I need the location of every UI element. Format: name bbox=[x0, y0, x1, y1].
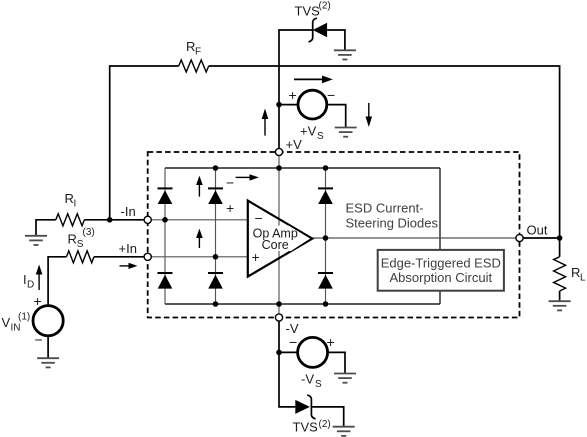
op-amp text background bbox=[254, 226, 310, 252]
svg-text:D: D bbox=[27, 280, 34, 291]
wire RL to ground bbox=[559, 291, 561, 301]
wire RS to +In node bbox=[94, 256, 148, 258]
svg-text:Edge-Triggered ESD: Edge-Triggered ESD bbox=[381, 256, 501, 271]
ground RL bbox=[549, 301, 571, 310]
svg-text:R: R bbox=[68, 232, 77, 247]
node -V (open pin circle) bbox=[275, 314, 282, 321]
ground +VS bbox=[335, 128, 357, 137]
junction dot outcol/bottom rail bbox=[323, 301, 329, 307]
diode D4 col2 bottom bbox=[208, 273, 223, 289]
arrow right above +VS bbox=[294, 78, 323, 80]
arrow right on top rail region bbox=[236, 176, 251, 178]
arrow up left of +VS bbox=[264, 118, 266, 136]
resistor RF bbox=[179, 60, 209, 72]
svg-text:(2): (2) bbox=[319, 1, 331, 12]
wire RI left lead to ground bbox=[36, 220, 56, 236]
TVS top diode symbol bbox=[309, 18, 328, 42]
svg-text:S: S bbox=[315, 379, 322, 390]
source VIN bbox=[33, 306, 63, 336]
wire -V down to TVS bottom bbox=[279, 321, 295, 407]
svg-text:-In: -In bbox=[121, 204, 136, 219]
svg-text:−: − bbox=[327, 87, 335, 103]
junction dot col1/-In row bbox=[162, 217, 168, 223]
svg-text:−: − bbox=[35, 332, 43, 348]
wire +VS right lead to ground bbox=[327, 105, 346, 127]
ground below RI bbox=[25, 236, 47, 245]
svg-text:+V: +V bbox=[286, 137, 303, 152]
node +In (open pin circle) bbox=[144, 253, 151, 260]
wire center supply column bbox=[278, 152, 280, 318]
svg-text:F: F bbox=[195, 47, 201, 58]
svg-text:Core: Core bbox=[262, 238, 289, 252]
node +V (open pin circle) bbox=[275, 148, 282, 155]
svg-text:+: + bbox=[34, 293, 42, 309]
svg-text:S: S bbox=[317, 131, 324, 142]
current arrow ID bbox=[38, 274, 40, 291]
node -In (open pin circle) bbox=[144, 216, 151, 223]
arrow up between diode rows (top) bbox=[198, 184, 200, 197]
wire -VS right lead to ground bbox=[328, 352, 345, 373]
svg-text:Out: Out bbox=[527, 223, 548, 238]
svg-text:(1): (1) bbox=[18, 312, 30, 323]
resistor RI bbox=[56, 214, 85, 226]
node Out (open pin circle) bbox=[516, 234, 523, 241]
wire op-amp output row to Out bbox=[312, 237, 519, 239]
diode D5 output column top bbox=[318, 188, 333, 204]
junction dot col2/+In row bbox=[213, 254, 219, 260]
svg-text:+: + bbox=[327, 334, 335, 350]
svg-text:−: − bbox=[255, 210, 263, 226]
wire bottom rail -V bbox=[165, 303, 440, 305]
source +VS bbox=[298, 90, 327, 119]
wire column 2 (+In diodes) bbox=[215, 168, 217, 304]
svg-text:+In: +In bbox=[119, 241, 137, 256]
svg-text:L: L bbox=[580, 273, 586, 284]
arrow down right of +VS bbox=[368, 103, 370, 118]
svg-text:IN: IN bbox=[11, 323, 21, 334]
diode D6 output column bottom bbox=[318, 273, 333, 289]
junction dot supply column/+VS bbox=[276, 102, 282, 108]
resistor RL bbox=[554, 257, 566, 291]
wire output diode column bbox=[325, 168, 327, 304]
wire RI to -In node bbox=[84, 219, 147, 221]
wire -In row to op-amp bbox=[148, 219, 248, 221]
svg-text:(2): (2) bbox=[319, 419, 331, 430]
wire VIN to ground bbox=[47, 336, 49, 358]
junction dot -V/-VS bbox=[276, 350, 282, 356]
svg-text:+: + bbox=[252, 249, 260, 265]
svg-text:Steering Diodes: Steering Diodes bbox=[346, 216, 439, 231]
junction dot outcol/out row bbox=[323, 235, 329, 241]
svg-text:TVS: TVS bbox=[295, 4, 321, 19]
junction dot col2/bottom rail bbox=[213, 301, 219, 307]
svg-text:+: + bbox=[226, 200, 234, 216]
ground TVS bottom bbox=[333, 427, 355, 436]
svg-text:+: + bbox=[289, 87, 297, 103]
svg-text:ESD Current-: ESD Current- bbox=[346, 201, 424, 216]
ground below VIN bbox=[37, 358, 59, 367]
ground -VS bbox=[334, 374, 356, 383]
diode D3 col1 bottom bbox=[158, 273, 173, 289]
wire feedback left vertical from RF down to -In junction bbox=[110, 66, 179, 220]
diode D2 col2 top bbox=[208, 188, 223, 204]
svg-text:R: R bbox=[571, 265, 580, 280]
junction dot Out/RL bbox=[557, 235, 563, 241]
svg-text:R: R bbox=[65, 191, 74, 206]
wire +In row to op-amp bbox=[148, 256, 248, 258]
wire RF to right edge and down to Out node bbox=[209, 66, 560, 238]
wire +VS left lead bbox=[279, 104, 298, 106]
junction dot center/bottom rail bbox=[276, 301, 282, 307]
wire RS left lead down to VIN bbox=[48, 257, 66, 306]
svg-text:I: I bbox=[74, 199, 77, 210]
wire top rail +V bbox=[165, 167, 440, 169]
wire TVS top right lead to ground bbox=[327, 30, 345, 50]
current arrow into +In bbox=[120, 265, 130, 267]
svg-text:−: − bbox=[289, 334, 297, 350]
box Edge-Triggered ESD Absorption Circuit bbox=[378, 250, 504, 291]
arrow up between input rows bbox=[198, 237, 200, 248]
svg-text:V: V bbox=[2, 315, 11, 330]
junction dot col2/top rail bbox=[213, 165, 219, 171]
svg-text:(3): (3) bbox=[83, 227, 95, 238]
wire Out node to RL bbox=[520, 237, 560, 239]
svg-text:Absorption Circuit: Absorption Circuit bbox=[389, 270, 492, 285]
wire column 1 (-In diodes) bbox=[164, 168, 166, 304]
node junction dot feedback/-In bbox=[107, 217, 113, 223]
wire right inner vertical bbox=[439, 168, 441, 304]
source -VS bbox=[298, 337, 328, 367]
ground TVS top bbox=[334, 50, 356, 59]
junction dot outcol/top rail bbox=[323, 165, 329, 171]
TVS bottom diode symbol bbox=[295, 395, 315, 419]
svg-text:TVS: TVS bbox=[293, 420, 319, 435]
svg-text:S: S bbox=[77, 239, 84, 250]
wire Out dot to RL bbox=[559, 238, 561, 257]
svg-text:-V: -V bbox=[301, 372, 314, 387]
svg-text:−: − bbox=[226, 175, 234, 191]
junction dot center/top rail bbox=[276, 165, 282, 171]
wire -VS left lead bbox=[279, 351, 298, 353]
svg-text:R: R bbox=[186, 39, 195, 54]
dashed ESD boundary box bbox=[148, 152, 520, 318]
diode D1 col1 top bbox=[158, 188, 173, 204]
wire TVS bottom right lead to ground bbox=[311, 407, 343, 426]
svg-text:+V: +V bbox=[300, 124, 317, 139]
wire TVS top left lead down the supply column bbox=[279, 30, 313, 152]
resistor RS bbox=[67, 251, 94, 263]
op-amp U1 triangle bbox=[248, 201, 312, 277]
